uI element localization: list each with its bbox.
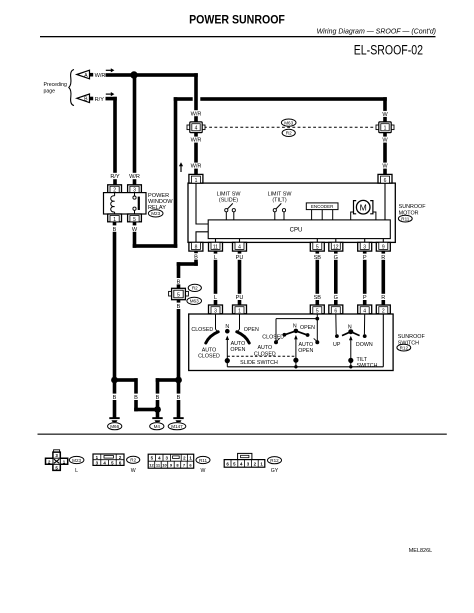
node dot B (M4 branch) xyxy=(154,406,161,413)
inline connector link (dashed) xyxy=(204,126,377,128)
svg-text:SLIDE SWITCH: SLIDE SWITCH xyxy=(240,360,278,366)
svg-text:CPU: CPU xyxy=(290,228,303,234)
pole 2 pivot N xyxy=(293,324,298,334)
CPU box xyxy=(208,220,390,239)
svg-text:P: P xyxy=(363,255,367,261)
svg-text:M23: M23 xyxy=(72,458,81,463)
relay connector oval M23 xyxy=(148,210,163,217)
svg-text:G: G xyxy=(334,295,338,301)
svg-text:R/Y: R/Y xyxy=(110,174,120,180)
svg-text:M: M xyxy=(360,202,367,212)
switch pin 3 (top) xyxy=(209,305,223,315)
svg-text:LIMIT SW: LIMIT SW xyxy=(217,191,242,197)
svg-text:W: W xyxy=(382,112,388,118)
svg-text:B: B xyxy=(177,304,181,310)
svg-text:L: L xyxy=(214,255,217,261)
svg-text:B: B xyxy=(113,227,117,233)
wire label R/Y above relay pin 2 xyxy=(109,173,122,180)
svg-text:EL-SROOF-02: EL-SROOF-02 xyxy=(354,42,423,58)
svg-text:CLOSED: CLOSED xyxy=(262,334,284,340)
svg-text:11: 11 xyxy=(213,244,218,250)
svg-text:DOWN: DOWN xyxy=(356,342,373,348)
svg-text:B: B xyxy=(156,395,160,401)
svg-text:M66: M66 xyxy=(110,424,119,429)
wire B jog to M4 node xyxy=(134,408,159,412)
wire B branch M66 node to jog xyxy=(115,378,138,382)
svg-text:12: 12 xyxy=(333,244,339,250)
svg-text:R: R xyxy=(381,255,385,261)
header title xyxy=(189,14,285,27)
svg-text:R11: R11 xyxy=(401,216,410,221)
wire label B below relay pin 1 xyxy=(111,225,118,232)
switch common bus wire xyxy=(227,366,383,368)
svg-text:M4: M4 xyxy=(154,424,161,429)
legend connector R2 face xyxy=(93,454,140,474)
connector arrow B xyxy=(77,94,93,103)
bus riser to pin 2 xyxy=(382,314,384,367)
svg-text:OPEN: OPEN xyxy=(300,325,315,331)
svg-text:ENCODER: ENCODER xyxy=(311,204,334,209)
pole 2 auto-closed contact xyxy=(274,338,280,344)
svg-text:W: W xyxy=(382,164,388,170)
connector arrow A xyxy=(77,70,93,79)
svg-text:9: 9 xyxy=(382,244,385,250)
svg-text:2: 2 xyxy=(382,309,385,315)
svg-text:MEL826L: MEL826L xyxy=(409,548,433,554)
slide switch pole 1 label AUTO CLOSED xyxy=(198,347,220,359)
wire W/R vertical to inline connector and motor pin 1 xyxy=(194,73,198,175)
legend connector R12 face xyxy=(224,453,281,474)
header rule xyxy=(40,36,436,37)
sunroof motor name label xyxy=(398,204,426,222)
motor unit pin 4 (bottom) xyxy=(233,242,247,251)
limit switch (slide) xyxy=(217,191,242,220)
wire W/R horizontal from A xyxy=(106,73,198,77)
svg-text:B: B xyxy=(177,279,181,285)
svg-text:1: 1 xyxy=(384,126,387,132)
flow arrow up (W/R to motor) xyxy=(179,162,183,172)
pole 2 arrow up xyxy=(294,335,298,340)
svg-text:10: 10 xyxy=(162,463,167,468)
svg-text:5: 5 xyxy=(316,244,319,250)
wire label B below inline 5 xyxy=(175,303,182,310)
switch pin 2 (top) xyxy=(376,305,390,315)
svg-text:CLOSED: CLOSED xyxy=(198,354,220,360)
motor unit pin 8 (bottom) xyxy=(189,242,203,251)
wire B from relay pin 1 to ground xyxy=(113,222,117,418)
CPU stub to pin 3 xyxy=(364,239,366,243)
mechanical link (dashed) xyxy=(227,355,296,357)
svg-text:AUTO: AUTO xyxy=(257,345,272,351)
tilt switch pivot N xyxy=(348,324,353,334)
wire label B above M66 xyxy=(111,394,118,401)
svg-text:W: W xyxy=(201,468,206,474)
svg-text:SUNROOF: SUNROOF xyxy=(398,334,426,340)
motor unit pin 6 (top) xyxy=(378,174,392,184)
svg-text:6: 6 xyxy=(334,309,337,315)
relay name label xyxy=(148,193,173,211)
svg-text:Wiring Diagram — SROOF — (Cont: Wiring Diagram — SROOF — (Cont'd) xyxy=(317,29,436,36)
wire label W/R above inline 4 xyxy=(189,110,203,117)
svg-text:PU: PU xyxy=(236,295,244,301)
pole 2 auto-open contact xyxy=(314,338,320,344)
connector oval R2 (B wire) xyxy=(188,284,201,291)
flow arrow right (B wire) xyxy=(106,92,115,96)
CPU stub to pin 4 xyxy=(239,239,241,243)
wire P motor pin 3 to switch pin 4 xyxy=(363,251,367,307)
wire B jog down segment xyxy=(134,378,138,411)
node dot B (motor branch) xyxy=(175,377,182,384)
relay pin 2 xyxy=(108,185,122,194)
internal wire pin8 to CPU xyxy=(196,232,208,243)
svg-text:R2: R2 xyxy=(286,131,292,136)
wire label B above inline 5 xyxy=(175,278,182,285)
svg-text:M23: M23 xyxy=(151,211,160,216)
wire label B below motor pin 8 xyxy=(193,253,200,260)
svg-text:POWER SUNROOF: POWER SUNROOF xyxy=(189,14,285,27)
svg-text:(SLIDE): (SLIDE) xyxy=(219,198,238,204)
svg-text:B: B xyxy=(134,395,138,401)
legend connector R11 face xyxy=(148,454,210,474)
wire label W below relay pin 5 xyxy=(131,225,139,232)
svg-text:W/R: W/R xyxy=(129,174,140,180)
switch pin 1 (top) xyxy=(233,305,247,315)
brace xyxy=(69,70,74,106)
svg-text:4: 4 xyxy=(238,244,241,250)
node dot pole 2 common xyxy=(293,358,298,363)
svg-text:3: 3 xyxy=(363,244,366,250)
tilt switch wiper blades xyxy=(342,332,360,336)
page code EL-SROOF-02 xyxy=(354,42,423,58)
wire label W/R above motor pin 1 xyxy=(189,163,203,170)
header subtitle xyxy=(317,29,436,36)
CPU stub to pin 11 xyxy=(215,239,217,243)
node dot tilt bus xyxy=(349,365,352,368)
slide switch pole 1 common line xyxy=(226,340,228,367)
wire G motor pin 12 to switch pin 6 xyxy=(334,251,338,307)
switch pin 4 (top) xyxy=(358,305,372,315)
ground M66 xyxy=(108,417,122,430)
svg-text:5: 5 xyxy=(133,217,136,223)
ground M147 xyxy=(168,417,186,430)
wire B from motor pin 8 (jog left) xyxy=(194,251,198,266)
motor unit pin 12 (bottom) xyxy=(329,242,343,251)
inline connector pin 4 (left) xyxy=(187,122,205,133)
motor unit pin 1 (top) xyxy=(189,174,203,184)
wire B riser to ground M4 xyxy=(156,378,160,417)
svg-text:POWER: POWER xyxy=(148,193,169,199)
svg-text:W: W xyxy=(132,227,138,233)
wire label W/R below inline 4 xyxy=(189,137,203,144)
connector oval M63 (B wire) xyxy=(187,297,202,304)
tilt arrow up xyxy=(349,336,353,341)
node dot pole 2 bus xyxy=(294,365,297,368)
slide switch pole 1 auto-closed arc xyxy=(206,332,218,343)
svg-text:W/R: W/R xyxy=(191,164,202,170)
encoder xyxy=(306,203,338,220)
slide switch pole 1: contact from pin 3 xyxy=(216,314,219,332)
node dot pole 1 common xyxy=(225,358,230,363)
node dot B (relay branch) xyxy=(111,377,118,384)
svg-text:B: B xyxy=(113,395,117,401)
tilt switch: contact from pin 4 xyxy=(363,314,367,338)
svg-text:GY: GY xyxy=(271,468,279,474)
wire label W above inline 1 xyxy=(380,111,390,118)
pole 2 label AUTO OPEN xyxy=(298,342,313,354)
switch pin 6 (top) xyxy=(329,305,343,315)
slide switch pole 1 label AUTO OPEN xyxy=(230,341,245,353)
wire label W below inline 1 xyxy=(380,137,390,144)
motor unit pin 11 (bottom) xyxy=(209,242,223,251)
svg-text:LIMIT SW: LIMIT SW xyxy=(268,191,293,197)
svg-text:AUTO: AUTO xyxy=(202,347,217,353)
svg-text:R2: R2 xyxy=(192,286,198,291)
wire R motor pin 9 to switch pin 2 xyxy=(382,251,386,307)
node dot tilt common xyxy=(348,358,353,363)
relay U1 power window relay body xyxy=(104,193,147,214)
svg-text:M63: M63 xyxy=(284,120,293,125)
svg-text:UP: UP xyxy=(333,342,341,348)
slide switch pole 1: contact from pin 1 xyxy=(236,314,239,332)
wire PU motor pin 4 to switch pin 1 xyxy=(238,251,242,307)
wire SB motor pin 5 to switch pin 5 xyxy=(316,251,320,307)
slide switch pole 1 pivot N xyxy=(225,324,230,334)
svg-text:R: R xyxy=(381,295,385,301)
svg-text:R12: R12 xyxy=(400,345,409,350)
pole 2 common line xyxy=(295,339,297,367)
svg-text:CLOSED: CLOSED xyxy=(254,351,276,357)
slide switch pole 1 auto-open arc xyxy=(237,332,249,343)
svg-text:OPEN: OPEN xyxy=(244,327,259,333)
internal wire pin6 to CPU xyxy=(384,183,386,220)
svg-text:R12: R12 xyxy=(270,458,279,463)
svg-text:SB: SB xyxy=(314,255,322,261)
svg-text:AUTO: AUTO xyxy=(298,342,313,348)
wire R/Y down to relay pin 2 xyxy=(113,97,117,185)
motor unit pin 5 (bottom) xyxy=(310,242,324,251)
wire label W above motor pin 6 xyxy=(380,163,390,170)
svg-text:SB: SB xyxy=(314,295,322,301)
preceding page label xyxy=(44,82,67,94)
svg-text:Preceding: Preceding xyxy=(44,82,67,88)
switch pin 5 (top) xyxy=(310,305,324,315)
slide switch pole 1 arrow up xyxy=(226,336,230,341)
wire L motor pin 11 to switch pin 3 xyxy=(214,251,218,307)
svg-text:12: 12 xyxy=(149,463,154,468)
svg-text:R11: R11 xyxy=(199,458,208,463)
wire R/Y horizontal from B xyxy=(106,97,117,101)
svg-text:4: 4 xyxy=(195,126,198,132)
svg-text:W: W xyxy=(382,138,388,144)
inline connector pin 5 (B wire) xyxy=(169,288,189,299)
internal wire pin1 to CPU xyxy=(196,183,208,224)
sunroof motor unit R11 box xyxy=(188,183,395,242)
svg-text:OPEN: OPEN xyxy=(230,347,245,353)
svg-text:W: W xyxy=(131,468,136,474)
legend connector M23 face xyxy=(46,450,84,474)
svg-text:R/Y: R/Y xyxy=(95,97,105,103)
svg-text:page: page xyxy=(44,88,56,94)
node junction dot W/R xyxy=(130,71,137,78)
wire label B above M4 xyxy=(154,394,161,401)
svg-text:CLOSED: CLOSED xyxy=(191,327,213,333)
wire W/R branch down to relay pin 3 xyxy=(133,75,137,185)
pole 2 wiper blades and contacts xyxy=(283,331,310,337)
svg-text:5: 5 xyxy=(177,293,180,299)
svg-text:L: L xyxy=(214,295,217,301)
svg-text:AUTO: AUTO xyxy=(231,341,246,347)
svg-text:W/R: W/R xyxy=(191,111,202,117)
limit switch (tilt) xyxy=(268,191,293,220)
label TILT SWITCH xyxy=(357,357,378,369)
svg-text:SWITCH: SWITCH xyxy=(357,363,378,369)
svg-text:PU: PU xyxy=(236,255,244,261)
svg-text:1: 1 xyxy=(238,309,241,315)
wire B branch M147 node to M4 riser xyxy=(156,378,181,382)
motor unit pin 3 (bottom) xyxy=(358,242,372,251)
wire W left vertical riser xyxy=(174,97,178,248)
svg-text:(TILT): (TILT) xyxy=(272,198,286,204)
motor M symbol xyxy=(351,200,376,220)
svg-text:M63: M63 xyxy=(190,299,199,304)
wire label B above M147 xyxy=(175,394,182,401)
svg-text:P: P xyxy=(363,295,367,301)
flow arrow right (A wire) xyxy=(106,68,115,72)
wire W (long horizontal at top) xyxy=(174,97,193,101)
svg-text:G: G xyxy=(334,255,338,261)
CPU stub to pin 9 xyxy=(382,239,384,243)
wire label W/R above relay pin 3 xyxy=(127,173,141,180)
legend separator line xyxy=(38,434,447,435)
tilt switch: contact from pin 6 xyxy=(335,314,339,338)
CPU stub to pin 5 xyxy=(316,239,318,243)
inline connector pin 1 (right) xyxy=(376,122,394,133)
CPU stub to pin 12 xyxy=(335,239,337,243)
sunroof switch R12 box xyxy=(189,314,393,371)
svg-text:M147: M147 xyxy=(171,424,183,429)
svg-text:4: 4 xyxy=(363,309,366,315)
svg-text:L: L xyxy=(75,468,78,474)
sunroof switch name label xyxy=(397,334,426,351)
connector oval M63 xyxy=(281,119,296,126)
svg-text:3: 3 xyxy=(214,309,217,315)
svg-text:5: 5 xyxy=(316,309,319,315)
wire W from relay pin 5 xyxy=(133,222,137,248)
svg-text:8: 8 xyxy=(195,244,198,250)
pole 2 label AUTO CLOSED xyxy=(254,345,276,357)
svg-text:W/R: W/R xyxy=(191,138,202,144)
motor unit pin 9 (bottom) xyxy=(376,242,390,251)
svg-text:SUNROOF: SUNROOF xyxy=(399,204,427,210)
svg-text:OPEN: OPEN xyxy=(298,348,313,354)
svg-text:B: B xyxy=(177,395,181,401)
svg-text:B: B xyxy=(84,97,88,103)
svg-text:WINDOW: WINDOW xyxy=(148,199,173,205)
wire W right vertical to motor pin 6 xyxy=(383,97,387,176)
connector oval R2 xyxy=(282,129,295,136)
svg-text:W/R: W/R xyxy=(95,73,106,79)
svg-text:B: B xyxy=(194,255,198,261)
ground M4 xyxy=(150,417,164,430)
svg-text:A: A xyxy=(84,73,88,79)
wire label B (jog branch) xyxy=(133,394,140,401)
relay pin 1 xyxy=(108,214,122,223)
tilt common line xyxy=(350,340,352,367)
relay pin 3 xyxy=(128,185,142,194)
relay pin 5 xyxy=(128,214,142,223)
slide switch pole 2: feed from pin 5 xyxy=(276,314,319,341)
svg-text:R2: R2 xyxy=(130,458,136,463)
